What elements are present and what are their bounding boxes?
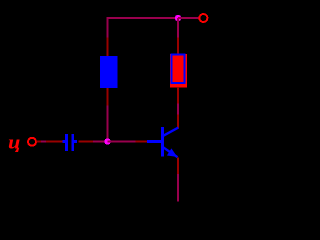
capacitor C1 left lead	[46, 141, 63, 143]
transistor Q1 emitter line	[163, 147, 178, 157]
node N2 (base junction)	[104, 138, 110, 144]
svg-text:ц: ц	[8, 133, 21, 154]
wire: node N1 down to resistor R2 lead	[177, 18, 179, 38]
capacitor C1 left plate	[65, 134, 68, 151]
transistor Q1 collector lead	[177, 115, 179, 129]
resistor R2 top lead	[177, 38, 179, 56]
wire: R1 bottom lead down to node N2	[107, 106, 109, 142]
wire: left vertical drop from top rail corner	[107, 17, 109, 38]
capacitor C1 right stub	[74, 140, 77, 143]
resistor R1 bottom lead	[107, 88, 109, 106]
transistor Q1 collector line	[163, 128, 179, 137]
wire: top rail from left corner to node N1	[107, 17, 182, 19]
terminal: supply (open circle, top right)	[199, 14, 207, 22]
transistor Q1 (selected, blue): base line	[147, 140, 162, 143]
resistor R1 top lead	[107, 38, 109, 57]
capacitor C1 (selected, blue): left stub	[62, 140, 65, 143]
capacitor C1 right plate	[71, 134, 74, 151]
transistor Q1 base lead	[136, 141, 149, 143]
node N1 (top, at collector branch)	[175, 15, 181, 21]
wire: capacitor to node N2	[93, 141, 107, 143]
wire: R2 bottom lead to collector lead	[177, 104, 179, 115]
wire: emitter down	[177, 174, 179, 202]
resistor R2 bottom lead	[177, 87, 179, 104]
transistor Q1 emitter lead	[177, 158, 179, 175]
transistor Q1 base bar	[161, 127, 164, 157]
wire: terminal to capacitor C1	[41, 141, 46, 143]
transistor Q1 emitter arrow	[167, 148, 177, 157]
capacitor C1 right lead	[78, 141, 93, 143]
resistor R1 body (selected, solid blue)	[100, 56, 117, 88]
wire: node N1 to supply terminal	[178, 17, 200, 19]
input terminal lead	[36, 141, 41, 143]
wire: node N2 to base lead	[108, 141, 136, 143]
input terminal u (open circle, bottom left)	[28, 138, 36, 146]
resistor R2 body (red with blue selection outline)	[170, 54, 187, 88]
